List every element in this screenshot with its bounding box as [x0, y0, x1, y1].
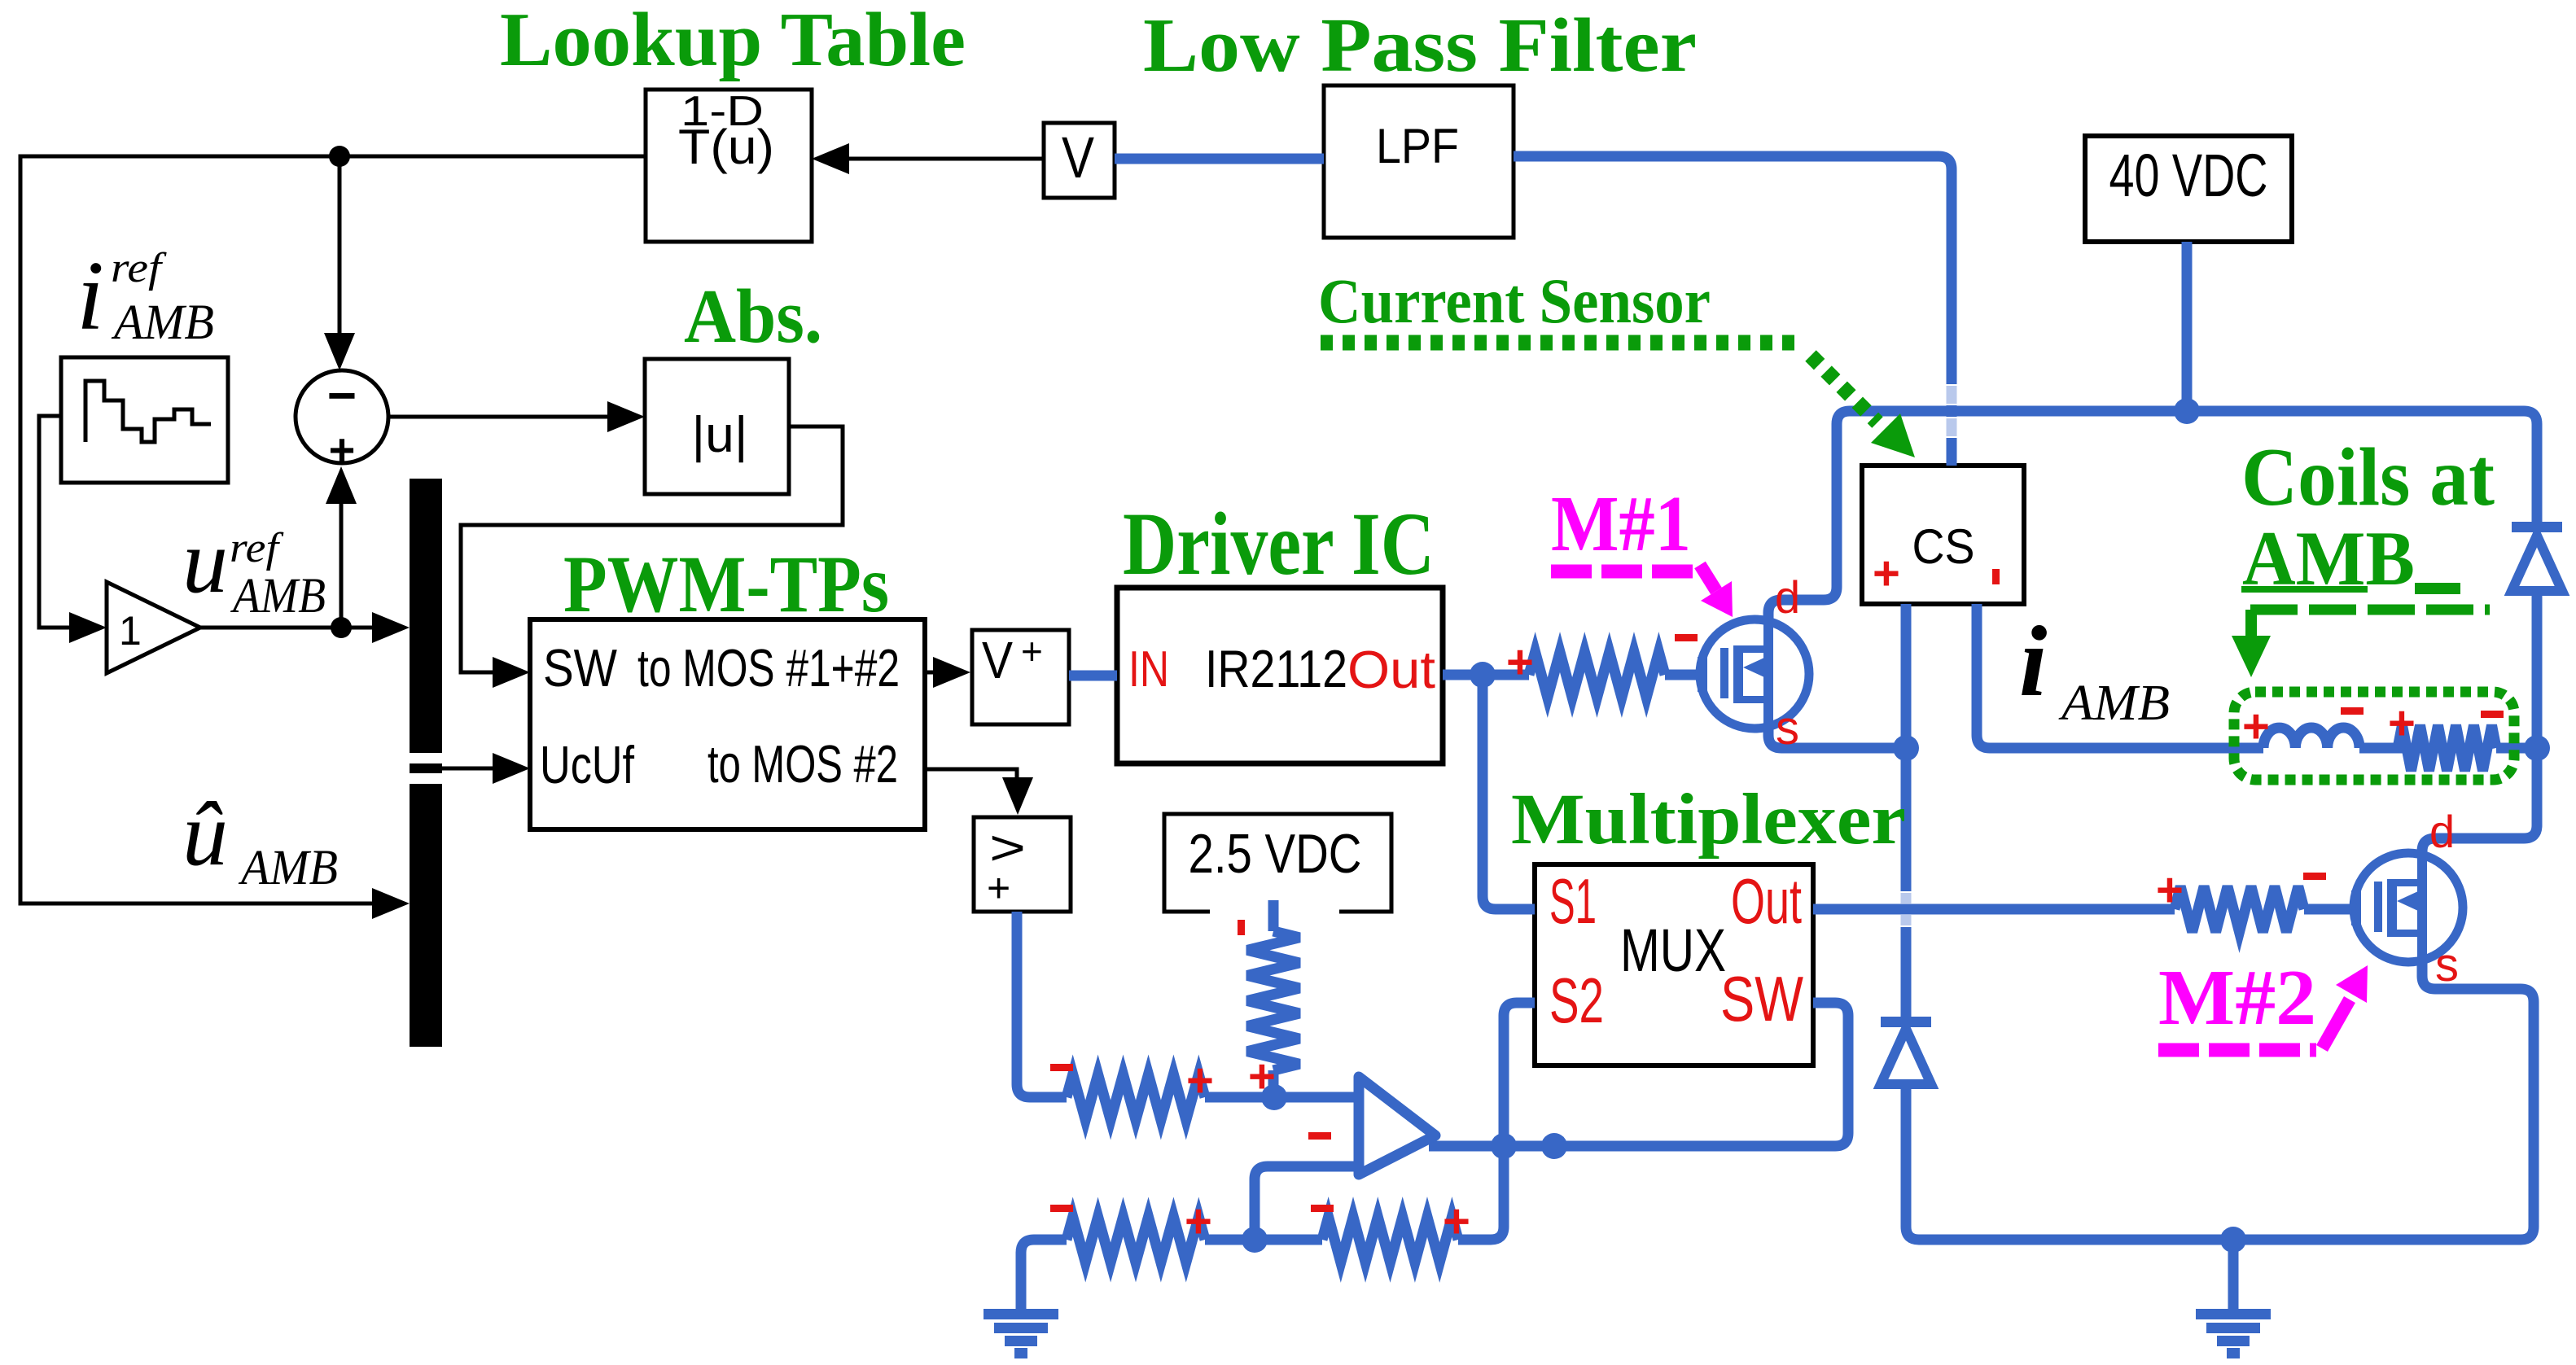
resistor R4 lower left — [1067, 1217, 1205, 1262]
resistor R5 lower right — [1322, 1217, 1458, 1262]
wire R2 bottom to junction — [1268, 1070, 1279, 1097]
arrow M#2 to MOSFET — [2322, 1000, 2350, 1048]
svg-text:ref: ref — [111, 245, 167, 291]
mux bar white marks — [410, 753, 442, 763]
wire R3 to minus junction — [1205, 1092, 1274, 1103]
wire lower row left lead to ground — [1021, 1240, 1067, 1309]
svg-text:+: + — [987, 865, 1010, 911]
block 40 VDC source — [2085, 136, 2292, 242]
svg-text:AMB: AMB — [230, 569, 326, 623]
svg-text:Multiplexer: Multiplexer — [1511, 780, 1906, 860]
node junction M1 source — [1893, 735, 1919, 761]
mux bar black — [410, 479, 442, 1047]
crossover gap on CS feed at bus — [1946, 384, 1957, 405]
node junction comparator output second — [1541, 1133, 1567, 1159]
block relational operator > — [974, 817, 1071, 912]
svg-text:+: + — [1506, 636, 1534, 689]
svg-text:to MOS #1+#2: to MOS #1+#2 — [637, 638, 900, 698]
svg-text:+: + — [329, 424, 356, 475]
wire u_ref up to sum plus input — [340, 501, 344, 628]
resistor coil R_AMB — [2398, 725, 2496, 771]
wire abs output to PWM SW input — [461, 427, 843, 672]
wire main DC bus — [1837, 411, 2537, 522]
svg-text:i: i — [2019, 606, 2047, 717]
polarity - comparator — [1308, 1132, 1331, 1140]
svg-text:Driver IC: Driver IC — [1123, 494, 1435, 593]
svg-text:to MOS #2: to MOS #2 — [708, 734, 898, 794]
wire V-sensor to lookup table — [848, 157, 1044, 161]
block signal source i_AMB_ref staircase — [61, 357, 228, 483]
wire blue V+ sensor to driver IN — [1069, 671, 1117, 681]
svg-text:+: + — [2388, 697, 2416, 750]
block driver IC IR2112 — [1117, 588, 1443, 763]
resistor M2 gate — [2175, 886, 2304, 932]
wire bottom ground rail and M2 source — [1906, 962, 2534, 1240]
polarity - R5 — [1311, 1205, 1334, 1212]
svg-text:+: + — [1021, 630, 1043, 672]
wire mux bar to UcUf input — [442, 767, 495, 771]
wire comparator minus input — [1274, 1092, 1361, 1103]
block current sensor CS — [1862, 466, 2024, 604]
node junction driver out — [1470, 662, 1496, 688]
svg-text:SW: SW — [543, 638, 618, 698]
svg-text:Abs.: Abs. — [684, 274, 822, 359]
svg-text:+: + — [1186, 1054, 1214, 1107]
node junction vertical resistor bottom — [1261, 1084, 1287, 1110]
wire M1 source to CS-left net — [1768, 727, 1906, 748]
svg-text:M#2: M#2 — [2158, 954, 2316, 1041]
wire bus corner to M1 drain — [1768, 424, 1837, 621]
svg-text:40 VDC: 40 VDC — [2109, 142, 2268, 209]
svg-text:−: − — [327, 368, 357, 424]
ground symbol left — [984, 1309, 1058, 1319]
wire driver out to gate resistor — [1443, 670, 1529, 680]
resistor M1 gate — [1529, 652, 1665, 698]
transistor M#2 MOSFET — [2351, 853, 2463, 962]
node junction 40VDC bus — [2174, 398, 2200, 424]
node junction dot top wire — [329, 146, 350, 167]
svg-text:V: V — [982, 631, 1013, 689]
wire gate resistor to M1 gate — [1665, 670, 1703, 680]
svg-text:T(u): T(u) — [678, 120, 774, 174]
wire PWM SW output to V+ sensor — [925, 671, 936, 675]
wire MUX S2 to feedback net — [1458, 1003, 1535, 1240]
svg-text:AMB: AMB — [111, 295, 214, 350]
svg-text:IN: IN — [1128, 641, 1169, 698]
svg-text:i: i — [77, 241, 104, 351]
transistor M#1 MOSFET — [1698, 619, 1809, 728]
polarity - gate resistor M1 — [1675, 634, 1698, 641]
wire M2 gate resistor to gate — [2304, 904, 2357, 915]
wire 40VDC to bus — [2182, 242, 2193, 411]
svg-text:d: d — [2429, 806, 2455, 857]
wire 2.5VDC stub — [1268, 900, 1279, 931]
wire source output to gain input — [39, 416, 72, 628]
svg-text:+: + — [1873, 547, 1900, 600]
ground symbol right — [2196, 1309, 2271, 1319]
gain block 1 — [107, 582, 200, 673]
svg-text:d: d — [1775, 571, 1800, 623]
wire MUX SW to comparator output net — [1429, 1003, 1848, 1146]
arrow dotted Current Sensor to CS — [1811, 356, 1877, 422]
wire R4 to middle junction — [1205, 1235, 1322, 1245]
wire relational block down to resistor R3 — [1017, 912, 1067, 1097]
node junction dot u_ref — [331, 617, 352, 638]
resistor R2 vertical — [1247, 931, 1299, 1070]
svg-text:SW: SW — [1720, 963, 1803, 1035]
svg-text:PWM-TPs: PWM-TPs — [563, 539, 889, 629]
wire lookup-table output loop (top, left, bottom) — [20, 156, 646, 903]
svg-text:UcUf: UcUf — [540, 735, 635, 794]
polarity - R4 — [1050, 1205, 1073, 1212]
block V+ sensor — [972, 630, 1069, 724]
wire blue V sensor to LPF — [1115, 154, 1324, 164]
dash after AMB — [2415, 583, 2460, 594]
resistor R3 upper left — [1067, 1074, 1205, 1120]
arrow M#1 to MOSFET — [1700, 565, 1716, 591]
svg-text:Out: Out — [1347, 640, 1435, 699]
svg-text:AMB: AMB — [238, 841, 338, 895]
arrow u_hat into mux bar — [372, 888, 410, 919]
op-amp comparator — [1359, 1077, 1435, 1175]
polarity - R3 — [1050, 1064, 1073, 1071]
diode D2 — [1881, 1017, 1931, 1027]
block lookup table 1-D T(u) — [646, 90, 812, 242]
wire MUX Out to M2 gate resistor — [1813, 904, 2175, 915]
svg-text:+: + — [1248, 1050, 1276, 1103]
svg-text:S2: S2 — [1549, 965, 1604, 1036]
block abs |u| — [645, 359, 789, 494]
svg-text:|u|: |u| — [692, 407, 748, 463]
svg-text:Lookup Table: Lookup Table — [500, 0, 966, 82]
svg-text:V: V — [1062, 126, 1095, 190]
svg-text:2.5 VDC: 2.5 VDC — [1189, 823, 1362, 885]
wire gain output u_ref to mux bar — [200, 626, 376, 630]
wire CS left terminal vertical — [1901, 604, 1912, 1227]
svg-text:S1: S1 — [1549, 865, 1597, 937]
svg-text:Coils at: Coils at — [2241, 431, 2495, 523]
diode D1 — [2512, 522, 2562, 532]
svg-text:+: + — [2156, 864, 2184, 917]
polarity - 2.5VDC tick — [1238, 920, 1245, 935]
crossover gap on CS-left net at MUX out wire — [1901, 893, 1912, 925]
block PWM-TPs — [530, 619, 925, 829]
wire CS right terminal to coils — [1977, 604, 2263, 748]
svg-text:u: u — [182, 511, 228, 612]
polarity - coil resistor right — [2481, 711, 2504, 718]
svg-text:Current Sensor: Current Sensor — [1318, 265, 1711, 336]
svg-text:+: + — [2242, 700, 2270, 753]
dashed arrow AMB to coils box — [2250, 605, 2490, 615]
block 2.5 VDC source — [1164, 814, 1391, 912]
node junction comparator output S2 — [1491, 1133, 1517, 1159]
wire ground stub right — [2228, 1240, 2239, 1309]
underline dotted Current Sensor — [1321, 335, 1801, 351]
polarity - M2 gate resistor — [2303, 873, 2326, 880]
svg-text:M#1: M#1 — [1551, 480, 1691, 567]
wire sum minus input vertical — [338, 156, 342, 335]
svg-text:1: 1 — [119, 608, 142, 654]
svg-text:s: s — [2435, 938, 2459, 991]
wire D1 to coils junction and M2 drain — [2422, 591, 2537, 855]
wire sum output to abs block — [388, 415, 611, 419]
svg-text:Out: Out — [1731, 865, 1802, 937]
svg-text:LPF: LPF — [1376, 119, 1459, 173]
node junction lower row middle — [1242, 1227, 1268, 1253]
inductor coil L_AMB — [2263, 728, 2359, 748]
wire comparator plus input — [1255, 1166, 1361, 1240]
wire coil to coil resistor — [2359, 743, 2403, 754]
svg-text:IR2112: IR2112 — [1205, 639, 1347, 698]
node junction coil right — [2524, 735, 2550, 761]
sum junction circle — [296, 370, 388, 463]
block voltage sensor V — [1044, 123, 1115, 198]
svg-text:ref: ref — [230, 525, 284, 571]
svg-text:+: + — [1443, 1195, 1470, 1248]
svg-text:+: + — [1185, 1195, 1212, 1248]
svg-text:Low Pass Filter: Low Pass Filter — [1143, 3, 1697, 88]
polarity - coil right — [2341, 707, 2364, 715]
block low pass filter LPF — [1324, 85, 1514, 238]
svg-text:û: û — [182, 784, 228, 885]
wire coil resistor to right vertical — [2496, 743, 2537, 754]
block multiplexer MUX — [1535, 864, 1813, 1065]
node junction ground rail — [2220, 1227, 2246, 1253]
wire driver out down to MUX S1 — [1483, 675, 1535, 909]
dotted box coils at AMB — [2234, 692, 2514, 780]
svg-text:s: s — [1776, 702, 1799, 755]
wire PWM UcUf output to relational block — [925, 769, 1017, 778]
polarity - CS tick — [1992, 569, 2000, 584]
svg-text:MUX: MUX — [1620, 917, 1726, 984]
svg-text:AMB: AMB — [2058, 676, 2170, 731]
svg-text:CS: CS — [1912, 519, 1975, 574]
wire LPF output to CS top — [1514, 156, 1952, 466]
